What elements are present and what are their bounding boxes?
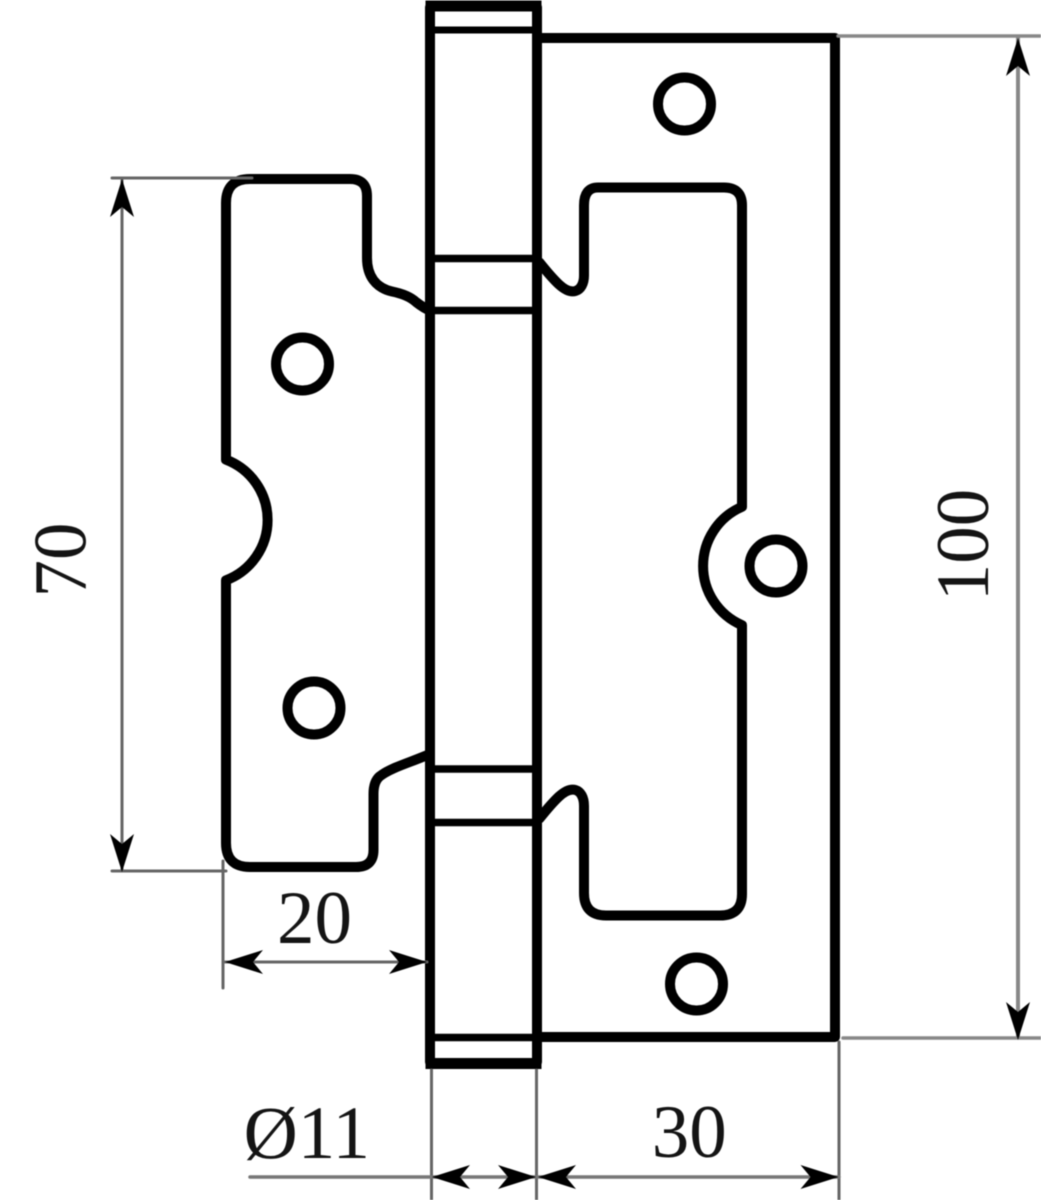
left leaf screw hole lower: [288, 682, 341, 735]
left hinge leaf outline: [226, 179, 430, 867]
right plate screw hole bottom: [670, 958, 723, 1011]
barrel bottom cap thick bar: [426, 1058, 542, 1069]
right plate inner cutout: [537, 188, 742, 916]
dim O11 left extension line: [430, 1070, 433, 1200]
dim O11 / 30 shared extension line: [535, 1070, 538, 1200]
dim 100 arrow up: [1006, 38, 1030, 76]
right hinge plate outline: [537, 38, 835, 1037]
dim 100 arrow down: [1006, 1002, 1030, 1040]
barrel right line: [532, 7, 542, 1062]
dim O11 arrow right: [498, 1165, 536, 1189]
dim 100 bottom extension line: [843, 1036, 1041, 1040]
svg-text:20: 20: [277, 877, 352, 960]
svg-text:Ø11: Ø11: [244, 1092, 370, 1175]
right plate screw hole middle: [750, 540, 803, 593]
svg-text:100: 100: [922, 489, 1005, 602]
dim 70 arrow down: [110, 834, 134, 872]
barrel top cap inner line: [430, 27, 537, 34]
dim 20 dimension line: [225, 961, 427, 964]
knuckle divider bottom lower: [430, 819, 537, 827]
dim O11 and 30 dimension line: [250, 1175, 839, 1179]
left leaf screw hole upper: [276, 338, 329, 391]
dim 70 bottom extension line: [112, 870, 226, 873]
dim 70 top extension line: [112, 177, 252, 180]
dim 30 right extension line: [838, 1042, 841, 1200]
dim 20 arrow right: [389, 950, 427, 974]
dim 20 extension line: [222, 861, 225, 988]
dim 100 dimension line: [1016, 38, 1020, 1036]
barrel bottom cap inner line: [430, 1034, 537, 1042]
dim 30 arrow left: [538, 1165, 576, 1189]
barrel top cap thick bar: [426, 1, 542, 12]
right plate screw hole top: [658, 78, 711, 131]
dim O11 arrow left: [432, 1165, 470, 1189]
knuckle divider top upper: [430, 255, 537, 263]
svg-text:30: 30: [652, 1091, 727, 1174]
svg-text:70: 70: [20, 523, 103, 598]
knuckle divider top lower: [430, 307, 537, 315]
dim 70 dimension line: [121, 180, 124, 869]
dim 30 arrow right: [801, 1165, 839, 1189]
dim 100 top extension line: [838, 34, 1040, 38]
dim 20 arrow left: [225, 950, 263, 974]
barrel left line: [425, 7, 435, 1062]
dim 70 arrow up: [110, 179, 134, 217]
knuckle divider bottom upper: [430, 765, 537, 773]
